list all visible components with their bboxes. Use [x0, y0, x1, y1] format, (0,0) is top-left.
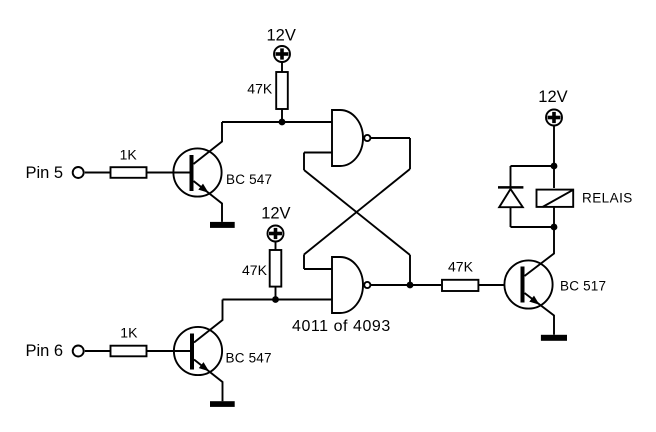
svg-text:BC 547: BC 547: [226, 351, 272, 366]
svg-text:BC 547: BC 547: [226, 172, 272, 187]
svg-text:47K: 47K: [247, 80, 273, 96]
svg-text:1K: 1K: [120, 325, 138, 341]
svg-text:BC 517: BC 517: [560, 279, 606, 294]
svg-text:12V: 12V: [261, 205, 290, 223]
svg-text:47K: 47K: [448, 259, 474, 275]
svg-text:Pin 5: Pin 5: [26, 164, 64, 182]
svg-text:4011 of 4093: 4011 of 4093: [292, 318, 391, 335]
svg-text:47K: 47K: [242, 262, 268, 278]
svg-text:12V: 12V: [538, 88, 567, 106]
svg-text:1K: 1K: [120, 147, 138, 163]
svg-text:Pin 6: Pin 6: [26, 342, 64, 360]
svg-text:12V: 12V: [267, 27, 296, 45]
svg-text:RELAIS: RELAIS: [582, 190, 633, 205]
